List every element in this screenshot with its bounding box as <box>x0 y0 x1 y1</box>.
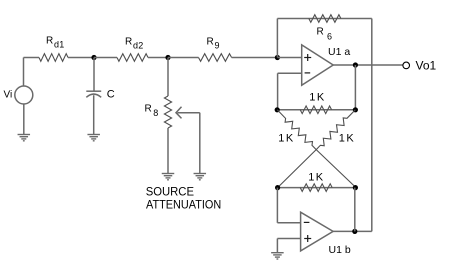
svg-text:ATTENUATION: ATTENUATION <box>146 198 221 212</box>
svg-text:d1: d1 <box>54 39 65 49</box>
svg-text:R: R <box>46 36 53 47</box>
svg-text:d2: d2 <box>133 40 144 50</box>
svg-text:R: R <box>207 37 214 48</box>
svg-text:R: R <box>125 37 132 48</box>
svg-text:9: 9 <box>215 40 220 50</box>
svg-text:U1 a: U1 a <box>328 46 350 58</box>
svg-text:1K: 1K <box>309 92 325 104</box>
svg-text:C: C <box>107 88 115 100</box>
svg-text:SOURCE: SOURCE <box>146 185 194 199</box>
svg-text:Vo1: Vo1 <box>416 59 437 73</box>
svg-text:Vi: Vi <box>4 90 13 101</box>
svg-text:1K: 1K <box>308 172 324 184</box>
svg-text:1K: 1K <box>278 133 294 145</box>
svg-text:U1 b: U1 b <box>329 244 351 256</box>
svg-text:R: R <box>145 104 152 115</box>
svg-text:1K: 1K <box>339 133 355 145</box>
svg-text:8: 8 <box>153 108 158 118</box>
svg-text:6: 6 <box>327 32 332 42</box>
svg-text:R: R <box>317 27 324 38</box>
